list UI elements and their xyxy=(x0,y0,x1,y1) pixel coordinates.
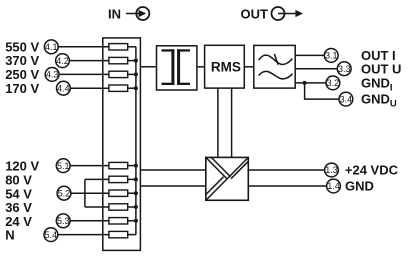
junction dot GND xyxy=(303,81,307,85)
terminal 3.4 xyxy=(339,92,353,106)
svg-text:RMS: RMS xyxy=(211,59,241,74)
wire 5.1 to block xyxy=(68,165,109,167)
wire block to DCDC +24 xyxy=(140,169,205,171)
resistor R9 xyxy=(109,218,136,224)
OUT arrow icon xyxy=(272,7,304,20)
wire 5.4 to block xyxy=(56,234,109,236)
svg-text:5.4: 5.4 xyxy=(45,230,58,240)
svg-text:5.1: 5.1 xyxy=(57,161,70,171)
RMS block U1 xyxy=(205,45,245,88)
resistor R6 xyxy=(109,176,136,182)
junction dot row5 xyxy=(134,164,138,168)
junction dot row3 xyxy=(134,72,138,76)
terminal 1.4 xyxy=(327,179,341,193)
filter block xyxy=(254,45,295,88)
terminal 5.3 xyxy=(56,214,70,228)
bracket wire 36 V xyxy=(85,206,109,208)
IN arrow icon xyxy=(126,7,149,20)
wire 5.2 to bracket and block xyxy=(68,192,109,194)
resistor R1 xyxy=(109,44,136,50)
svg-text:4.1: 4.1 xyxy=(45,42,58,52)
svg-text:5.3: 5.3 xyxy=(57,216,70,226)
input bus xyxy=(135,47,137,235)
terminal 4.2 xyxy=(56,54,70,68)
terminal block xyxy=(103,38,141,251)
resistor R3 xyxy=(109,71,136,77)
svg-text:5.2: 5.2 xyxy=(58,188,71,198)
svg-text:3.4: 3.4 xyxy=(340,94,353,104)
svg-text:120 V: 120 V xyxy=(5,159,39,174)
resistor R4 xyxy=(109,85,136,91)
terminal 4.4 xyxy=(57,81,71,95)
DC/DC converter U2 xyxy=(206,157,249,200)
resistor R8 xyxy=(109,204,136,210)
wire 4.4 to block xyxy=(68,87,109,89)
svg-text:80 V: 80 V xyxy=(5,173,32,188)
svg-text:N: N xyxy=(5,228,14,243)
terminal 5.1 xyxy=(56,159,70,173)
junction dot row9 xyxy=(134,219,138,223)
wire 4.3 to block xyxy=(57,73,109,75)
wire GND I xyxy=(295,82,326,84)
svg-text:250 V: 250 V xyxy=(5,67,39,82)
resistor R10 xyxy=(109,231,136,237)
resistor R5 xyxy=(109,162,136,168)
svg-text:1.4: 1.4 xyxy=(327,181,340,191)
junction dot row4 xyxy=(134,86,138,90)
svg-text:370 V: 370 V xyxy=(5,53,39,68)
resistor R7 xyxy=(109,190,136,196)
svg-text:IN: IN xyxy=(108,6,121,21)
svg-text:4.2: 4.2 xyxy=(56,56,69,66)
bracket vertical for 5.2 xyxy=(84,179,86,207)
main AC wire block to transformer xyxy=(140,66,156,68)
terminal 4.1 xyxy=(44,40,58,54)
svg-text:OUT U: OUT U xyxy=(361,61,401,76)
wire 5.3 to block xyxy=(68,220,109,222)
bracket wire 80 V xyxy=(85,178,109,180)
junction dot row2 xyxy=(134,59,138,63)
wire RMS to DCDC left xyxy=(217,88,219,157)
svg-text:4.4: 4.4 xyxy=(57,83,70,93)
wire GND U xyxy=(305,83,339,99)
wire OUT U xyxy=(295,68,337,70)
wire RMS to filter xyxy=(244,66,254,68)
junction dot row7 xyxy=(134,191,138,195)
terminal 3.3 xyxy=(337,62,351,76)
junction dot row6 xyxy=(134,177,138,181)
terminal 1.3 xyxy=(325,163,339,177)
svg-text:3.3: 3.3 xyxy=(338,64,351,74)
wire GND power xyxy=(248,185,326,187)
wire 4.2 to block xyxy=(67,60,109,62)
wire transformer to RMS xyxy=(197,66,205,68)
wire RMS to DCDC right xyxy=(231,88,233,157)
svg-text:GND: GND xyxy=(345,179,374,194)
terminal 3.2 xyxy=(326,76,340,90)
svg-text:GNDU: GNDU xyxy=(361,92,397,110)
wire 4.1 to block xyxy=(56,46,109,48)
terminal 3.1 xyxy=(324,49,338,63)
terminal 5.4 xyxy=(44,228,58,242)
svg-text:170 V: 170 V xyxy=(5,81,39,96)
terminal 5.2 xyxy=(57,186,71,200)
svg-text:1.3: 1.3 xyxy=(325,165,338,175)
wire +24 VDC xyxy=(248,169,324,171)
svg-text:550 V: 550 V xyxy=(5,39,39,54)
wire block to DCDC gnd xyxy=(140,185,205,187)
wire OUT I xyxy=(295,54,324,56)
resistor R2 xyxy=(109,57,136,63)
svg-text:54 V: 54 V xyxy=(5,186,32,201)
svg-text:OUT: OUT xyxy=(241,6,269,21)
terminal 4.3 xyxy=(45,68,59,82)
svg-text:24 V: 24 V xyxy=(5,214,32,229)
svg-text:+24 VDC: +24 VDC xyxy=(345,163,399,178)
svg-text:4.3: 4.3 xyxy=(46,70,59,80)
transformer T1 xyxy=(157,46,197,90)
svg-text:3.1: 3.1 xyxy=(325,51,338,61)
junction dot row8 xyxy=(134,205,138,209)
svg-text:3.2: 3.2 xyxy=(327,78,340,88)
svg-text:36 V: 36 V xyxy=(5,200,32,215)
